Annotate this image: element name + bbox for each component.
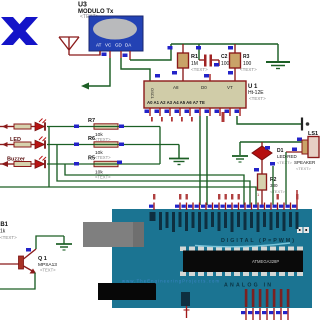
svg-text:ATMEGA328P: ATMEGA328P: [252, 259, 279, 264]
svg-text:DA: DA: [125, 43, 131, 48]
row 2 LED: [31, 137, 46, 149]
power jack: [98, 283, 156, 300]
label C2: [221, 54, 232, 67]
resistor R3: [228, 44, 241, 81]
row 1 wire: [47, 125, 125, 129]
RF module U3: [89, 16, 143, 51]
U1 bottom pins: [145, 108, 241, 116]
label Q1: [38, 256, 57, 273]
svg-text:R6: R6: [88, 136, 95, 142]
label R2: [270, 177, 286, 194]
vcc rail wire: [171, 43, 278, 45]
wire R2 to arduino: [261, 190, 263, 205]
svg-text:<TEXT>: <TEXT>: [0, 235, 17, 240]
wire bus y187: [0, 187, 256, 205]
svg-text:www.TheEngineeringProjects.com: www.TheEngineeringProjects.com: [122, 279, 220, 284]
svg-text:SPEAKER: SPEAKER: [294, 160, 316, 165]
wire module pin2 to terminal: [88, 58, 110, 86]
wire encoder pin7 to arduino: [206, 116, 208, 205]
svg-text:330: 330: [270, 183, 278, 188]
wire encoder pin6 to arduino: [199, 116, 201, 205]
arduino uno board: [112, 209, 312, 308]
svg-text:1k: 1k: [0, 229, 6, 235]
antenna: [59, 37, 79, 55]
wire antenna to module: [69, 51, 100, 55]
svg-text:<TEXT>: <TEXT>: [95, 137, 111, 142]
svg-text:U3: U3: [78, 2, 87, 9]
module pins: [100, 51, 130, 60]
ground vcc rail: [266, 44, 290, 69]
svg-text:LS1: LS1: [308, 131, 318, 137]
power header label: [181, 292, 190, 306]
resistor R7: [88, 118, 118, 142]
usb connector: [83, 222, 144, 247]
svg-text:OSC1: OSC1: [150, 88, 155, 100]
svg-text:RB1: RB1: [0, 222, 9, 228]
row 1 terminal arrow: [0, 124, 14, 129]
wire collector: [36, 236, 64, 249]
row 2 terminal arrow: [0, 142, 14, 147]
LED D1: [252, 142, 272, 160]
svg-text:R3: R3: [243, 54, 250, 60]
row 2 ground: [169, 145, 189, 165]
wire module pin4 to vcc rail: [130, 44, 171, 60]
svg-text:AT: AT: [96, 43, 102, 48]
transistor Q1: [0, 248, 36, 274]
row 3 wire: [47, 161, 160, 166]
row 1 resistor: [14, 124, 31, 129]
wire row1 down long: [48, 127, 50, 188]
svg-text:R7: R7: [88, 118, 95, 124]
speaker LS1: [302, 137, 319, 158]
U1 internal labels: [147, 85, 233, 105]
label U3: [78, 2, 114, 21]
ground collector: [56, 236, 72, 250]
wire emitter: [0, 273, 35, 290]
atmega socket pins top: [180, 247, 303, 252]
svg-text:D0: D0: [201, 85, 207, 90]
terminal arrow: [81, 83, 89, 90]
capacitor C2: [196, 44, 219, 67]
row 3 LED: [31, 156, 46, 168]
wire terminal to arduino: [270, 162, 275, 205]
row 3 resistor: [14, 162, 31, 167]
resistor R5: [88, 156, 118, 180]
arduino top pins: [154, 203, 297, 211]
ground speaker net: [232, 156, 248, 162]
U1 pin name texts: [151, 112, 225, 122]
resistor R2: [254, 168, 267, 197]
svg-text:Q 1: Q 1: [38, 256, 47, 262]
speaker net wire: [240, 138, 303, 156]
resistor R6: [88, 136, 118, 160]
atmega socket pins bottom: [180, 272, 303, 277]
label R3: [240, 54, 257, 72]
svg-text:C2: C2: [221, 54, 228, 60]
speaker bottom wire: [286, 148, 303, 206]
svg-text:<TEXT>: <TEXT>: [249, 96, 266, 101]
resistor R1: [168, 44, 189, 81]
arduino top pin numbers: [149, 205, 296, 208]
wire encoder pin10 to bar terminal: [237, 116, 309, 131]
svg-text:A8: A8: [173, 85, 179, 90]
label D1: [277, 148, 298, 165]
label R1: [191, 54, 208, 72]
svg-text:<TEXT>: <TEXT>: [277, 160, 293, 165]
svg-text:VC: VC: [105, 43, 112, 48]
wire row1 to row3 joint: [125, 127, 160, 165]
row 3 terminal arrow: [0, 161, 14, 167]
encoder U1: [144, 74, 246, 108]
bottom right pin labels: [245, 289, 290, 307]
svg-text:R1: R1: [191, 54, 198, 60]
icsp pads: [297, 227, 309, 233]
svg-text:ANALOG IN: ANALOG IN: [224, 283, 271, 289]
svg-text:R5: R5: [88, 156, 95, 162]
wire row3 down long: [65, 164, 244, 205]
arduino top pin name texts: [153, 194, 298, 200]
wire stub pin 297: [296, 190, 298, 203]
power pin wire: [186, 306, 188, 318]
pin number D1: [265, 146, 270, 150]
label RB1: [0, 222, 17, 240]
atmega chip body: [183, 251, 303, 273]
svg-text:<TEXT>: <TEXT>: [240, 67, 257, 72]
label LS1: [294, 131, 318, 171]
svg-text:GD: GD: [115, 43, 123, 48]
svg-text:<TEXT>: <TEXT>: [191, 67, 208, 72]
wire row2 down long: [57, 145, 250, 206]
top pin labels: [150, 212, 299, 232]
logo X: [1, 17, 38, 45]
row 2 wire: [47, 143, 179, 147]
svg-text:<TEXT>: <TEXT>: [296, 166, 312, 171]
svg-text:LED-RED: LED-RED: [277, 154, 298, 159]
label U1: [248, 84, 266, 101]
wire LED to R2: [261, 160, 263, 174]
svg-text:A0 A1 A2 A3 A4 A5 A6 A7 TE: A0 A1 A2 A3 A4 A5 A6 A7 TE: [147, 100, 205, 105]
wire module pin3 to encoder: [121, 58, 150, 81]
row 1 LED: [31, 119, 46, 131]
svg-text:<TEXT>: <TEXT>: [40, 268, 56, 273]
pin number: [102, 53, 107, 57]
arduino bottom pins: [241, 308, 288, 320]
row 2 resistor: [14, 142, 31, 147]
silkscreen arc: [195, 243, 290, 247]
svg-text:VT: VT: [227, 85, 233, 90]
svg-text:<TEXT>: <TEXT>: [95, 155, 111, 160]
